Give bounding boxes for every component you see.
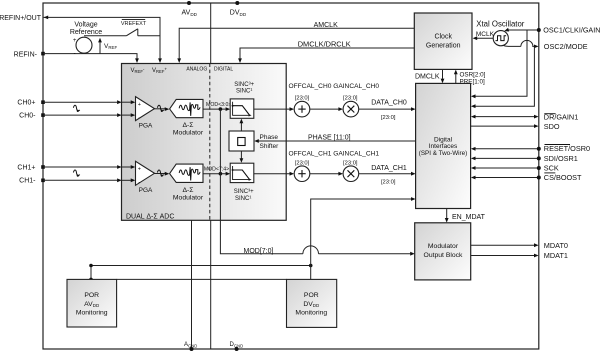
voltage reference bbox=[70, 21, 102, 57]
wire CH1- bbox=[41, 178, 135, 182]
PGA amplifier CH0 bbox=[136, 97, 155, 130]
wire CH0- bbox=[41, 113, 135, 117]
svg-text:VREFEXT: VREFEXT bbox=[121, 21, 147, 27]
wire EN_MDAT bbox=[445, 209, 486, 223]
svg-text:POR: POR bbox=[84, 292, 99, 299]
pin label CH0+ bbox=[17, 100, 35, 107]
svg-text:[23:0]: [23:0] bbox=[343, 96, 358, 102]
power domain separator line (bottom segment) bbox=[210, 220, 212, 349]
wire phase shifter to SINC CH0 bbox=[240, 119, 244, 131]
svg-text:OFFCAL_CH0 GAINCAL_CH0: OFFCAL_CH0 GAINCAL_CH0 bbox=[289, 83, 380, 90]
label Xtal Oscillator bbox=[476, 19, 524, 28]
ADC block DUAL delta-sigma bbox=[122, 64, 287, 221]
svg-text:Monitoring: Monitoring bbox=[295, 310, 327, 317]
svg-text:+: + bbox=[138, 167, 141, 173]
svg-text:Reference: Reference bbox=[70, 29, 102, 36]
switch VREFEXT bbox=[84, 20, 160, 36]
wire DR/GAIN1 bbox=[471, 115, 539, 119]
svg-text:POR: POR bbox=[304, 292, 319, 299]
phase shifter bbox=[229, 131, 279, 151]
svg-text:DATA_CH1: DATA_CH1 bbox=[371, 165, 407, 172]
wire MDAT0 bbox=[471, 243, 539, 247]
svg-text:[23:0]: [23:0] bbox=[381, 115, 396, 121]
multiplier gain CH1 bbox=[343, 166, 359, 182]
pin label SDO bbox=[544, 122, 560, 131]
wire MDAT1 bbox=[471, 254, 539, 258]
svg-text:Phase: Phase bbox=[260, 134, 279, 141]
svg-text:Monitoring: Monitoring bbox=[76, 310, 108, 317]
label [23:0] offcal CH1 bbox=[295, 160, 310, 166]
SINC filter CH0 bbox=[230, 82, 254, 118]
svg-text:ANALOG: ANALOG bbox=[186, 66, 207, 72]
svg-text:REFIN+/OUT: REFIN+/OUT bbox=[0, 15, 42, 22]
pin AGND bbox=[184, 342, 197, 351]
wire DATA_CH1 bbox=[359, 165, 416, 186]
clock generation block bbox=[414, 13, 472, 69]
svg-text:MDAT1: MDAT1 bbox=[544, 251, 568, 260]
junction node MOD CH0 bbox=[219, 107, 223, 111]
wire SINC CH1 to adder bbox=[254, 172, 294, 176]
POR AVDD monitoring block bbox=[67, 279, 117, 327]
junction node MOD CH1 bbox=[219, 172, 223, 176]
VREF arrow and label bbox=[98, 38, 117, 54]
wire OSC1 bbox=[471, 28, 541, 98]
node VREF- label bbox=[131, 66, 145, 74]
wire POR net bbox=[89, 197, 415, 281]
wire DMCLK to digital interface bbox=[415, 69, 444, 83]
pin label REFIN+/OUT bbox=[0, 15, 42, 22]
svg-text:SDO: SDO bbox=[544, 122, 560, 131]
wire PGA CH1 to modulator bbox=[155, 172, 170, 176]
svg-text:SINC³+: SINC³+ bbox=[234, 189, 254, 195]
svg-text:+: + bbox=[138, 102, 141, 108]
svg-text:CH0+: CH0+ bbox=[17, 100, 35, 107]
svg-text:Output Block: Output Block bbox=[424, 252, 464, 259]
pin DVDD bbox=[230, 1, 247, 17]
wire AMCLK bbox=[177, 22, 414, 63]
power domain separator line (top segment) bbox=[210, 3, 212, 64]
pin label CH1- bbox=[19, 178, 36, 185]
wire SCK bbox=[471, 166, 541, 170]
wire adder to multiplier CH1 bbox=[310, 172, 343, 176]
label [23:0] gaincal CH0 bbox=[343, 96, 358, 102]
adder offset CH1 bbox=[294, 166, 310, 182]
svg-text:SINC¹: SINC¹ bbox=[235, 196, 251, 202]
svg-text:DIGITAL: DIGITAL bbox=[214, 66, 233, 72]
svg-text:Δ-Σ: Δ-Σ bbox=[182, 187, 193, 194]
svg-text:SINC³+: SINC³+ bbox=[234, 82, 254, 88]
svg-text:DATA_CH0: DATA_CH0 bbox=[371, 100, 407, 107]
adder offset CH0 bbox=[294, 101, 310, 117]
wire OSR PRE to clock generation bbox=[454, 70, 486, 86]
SINC filter CH1 bbox=[230, 163, 254, 202]
svg-text:[23:0]: [23:0] bbox=[295, 96, 310, 102]
svg-text:+: + bbox=[73, 38, 77, 44]
svg-text:EN_MDAT: EN_MDAT bbox=[452, 214, 486, 221]
svg-text:DUAL Δ-Σ ADC: DUAL Δ-Σ ADC bbox=[126, 214, 174, 221]
wire linking POR blocks bbox=[117, 278, 287, 280]
pin label CS/BOOST bbox=[544, 173, 582, 182]
label OFFCAL_CH1 GAINCAL_CH1 bbox=[289, 150, 380, 157]
svg-text:Xtal Oscillator: Xtal Oscillator bbox=[476, 19, 524, 28]
wire phase shifter to SINC CH1 bbox=[240, 151, 244, 163]
wire PHASE[11:0] bbox=[254, 134, 415, 143]
svg-text:-: - bbox=[74, 51, 76, 57]
pin label RESET/OSR0 bbox=[544, 144, 590, 153]
analog signal symbol CH0 input bbox=[73, 105, 79, 112]
svg-text:Clock: Clock bbox=[434, 34, 452, 41]
wire REFIN+/OUT to VREF+ bbox=[44, 16, 162, 64]
svg-text:[23:0]: [23:0] bbox=[381, 180, 396, 186]
svg-text:PGA: PGA bbox=[139, 187, 153, 194]
svg-text:RESET/OSR0: RESET/OSR0 bbox=[544, 144, 590, 153]
svg-text:MOD[7:0]: MOD[7:0] bbox=[244, 248, 274, 255]
pin label REFIN- bbox=[14, 51, 38, 58]
digital interfaces block bbox=[416, 83, 471, 208]
wire DATA_CH0 bbox=[359, 100, 416, 121]
wire MOD[7:0] bus bbox=[220, 109, 414, 256]
node VREF+ label bbox=[152, 66, 167, 74]
oscillator symbol bbox=[493, 31, 508, 46]
pin label DR/GAIN1 bbox=[544, 113, 578, 122]
wire adder to multiplier CH0 bbox=[310, 107, 343, 111]
wire OSC2 bbox=[471, 40, 539, 108]
svg-text:PHASE [11:0]: PHASE [11:0] bbox=[308, 134, 351, 141]
svg-text:Modulator: Modulator bbox=[173, 129, 204, 136]
svg-text:SDI/OSR1: SDI/OSR1 bbox=[544, 154, 578, 163]
delta-sigma modulator CH1 bbox=[170, 164, 204, 201]
svg-text:OSC1/CLKI/GAIN0: OSC1/CLKI/GAIN0 bbox=[543, 26, 600, 35]
svg-text:AMCLK: AMCLK bbox=[314, 22, 338, 29]
analog signal symbol CH0 PGA out bbox=[157, 105, 163, 112]
POR DVDD monitoring block bbox=[287, 279, 337, 327]
svg-text:Voltage: Voltage bbox=[74, 21, 97, 28]
svg-text:MOD<7:4>: MOD<7:4> bbox=[204, 166, 229, 172]
svg-text:Modulator: Modulator bbox=[428, 243, 459, 250]
wire SDI/OSR1 bbox=[471, 156, 541, 160]
svg-text:CH1+: CH1+ bbox=[17, 164, 35, 171]
wire CH0+ bbox=[41, 100, 135, 104]
pin label OSC1/CLKI/GAIN0 bbox=[543, 26, 600, 35]
svg-text:DMCLK/DRCLK: DMCLK/DRCLK bbox=[298, 39, 351, 48]
svg-text:SCK: SCK bbox=[544, 164, 559, 173]
delta-sigma modulator CH0 bbox=[170, 99, 204, 136]
label ANALOG bbox=[186, 66, 207, 72]
wire RESET/OSR0 bbox=[471, 147, 541, 151]
wire CH1+ bbox=[41, 165, 135, 169]
svg-text:MDAT0: MDAT0 bbox=[544, 241, 568, 250]
wire AGND bbox=[191, 220, 193, 349]
pin label OSC2/MODE bbox=[544, 42, 588, 51]
label OFFCAL_CH0 GAINCAL_CH0 bbox=[289, 83, 380, 90]
svg-text:CS/BOOST: CS/BOOST bbox=[544, 173, 582, 182]
pin label SDI/OSR1 bbox=[544, 154, 578, 163]
pin label CH1+ bbox=[17, 164, 35, 171]
svg-text:CH0-: CH0- bbox=[19, 113, 36, 120]
wire MCLK bbox=[473, 31, 495, 40]
pin AVDD bbox=[182, 1, 198, 17]
analog signal symbol CH1 input bbox=[73, 170, 79, 177]
svg-text:OFFCAL_CH1 GAINCAL_CH1: OFFCAL_CH1 GAINCAL_CH1 bbox=[289, 150, 380, 157]
svg-text:AGND: AGND bbox=[184, 342, 197, 348]
modulator output block bbox=[415, 223, 471, 280]
wire SINC CH0 to adder bbox=[254, 107, 294, 111]
wire REFIN- to VREF- bbox=[41, 52, 139, 63]
svg-text:Shifter: Shifter bbox=[260, 143, 280, 150]
svg-text:CH1-: CH1- bbox=[19, 178, 36, 185]
wire DMCLK/DRCLK bbox=[238, 39, 414, 63]
PGA amplifier CH1 bbox=[136, 161, 155, 194]
svg-text:REFIN-: REFIN- bbox=[14, 51, 38, 58]
pin label MDAT0 bbox=[544, 241, 568, 250]
svg-text:Modulator: Modulator bbox=[173, 195, 204, 202]
wire modulator CH1 to SINC, label MOD<7:4> bbox=[203, 166, 230, 175]
svg-text:OSC2/MODE: OSC2/MODE bbox=[544, 42, 588, 51]
svg-text:Generation: Generation bbox=[426, 43, 461, 50]
wire CS/BOOST bbox=[471, 176, 541, 180]
pin DGND bbox=[230, 342, 244, 351]
label [23:0] gaincal CH1 bbox=[343, 160, 358, 166]
svg-text:DMCLK: DMCLK bbox=[415, 74, 440, 81]
svg-text:(SPI & Two-Wire): (SPI & Two-Wire) bbox=[419, 150, 468, 157]
svg-text:MCLK: MCLK bbox=[476, 31, 495, 38]
svg-text:-: - bbox=[138, 180, 140, 186]
label DIGITAL bbox=[214, 66, 233, 72]
wire modulator CH0 to SINC, label MOD<3:0> bbox=[203, 102, 231, 111]
pin label SCK bbox=[544, 164, 559, 173]
svg-text:MOD<3:0>: MOD<3:0> bbox=[206, 102, 231, 108]
analog signal symbol CH1 PGA out bbox=[157, 170, 163, 177]
wire SDO bbox=[471, 124, 539, 128]
svg-text:-: - bbox=[138, 115, 140, 121]
svg-text:SINC¹: SINC¹ bbox=[236, 88, 252, 94]
wire PGA CH0 to modulator bbox=[155, 107, 170, 111]
pin label MDAT1 bbox=[544, 251, 568, 260]
svg-text:DGND: DGND bbox=[230, 342, 244, 348]
pin label CH0- bbox=[19, 113, 36, 120]
svg-text:PGA: PGA bbox=[139, 122, 153, 129]
label [23:0] offcal CH0 bbox=[295, 96, 310, 102]
svg-text:DR/GAIN1: DR/GAIN1 bbox=[544, 113, 578, 122]
svg-text:Δ-Σ: Δ-Σ bbox=[182, 122, 193, 129]
multiplier gain CH0 bbox=[343, 101, 359, 117]
